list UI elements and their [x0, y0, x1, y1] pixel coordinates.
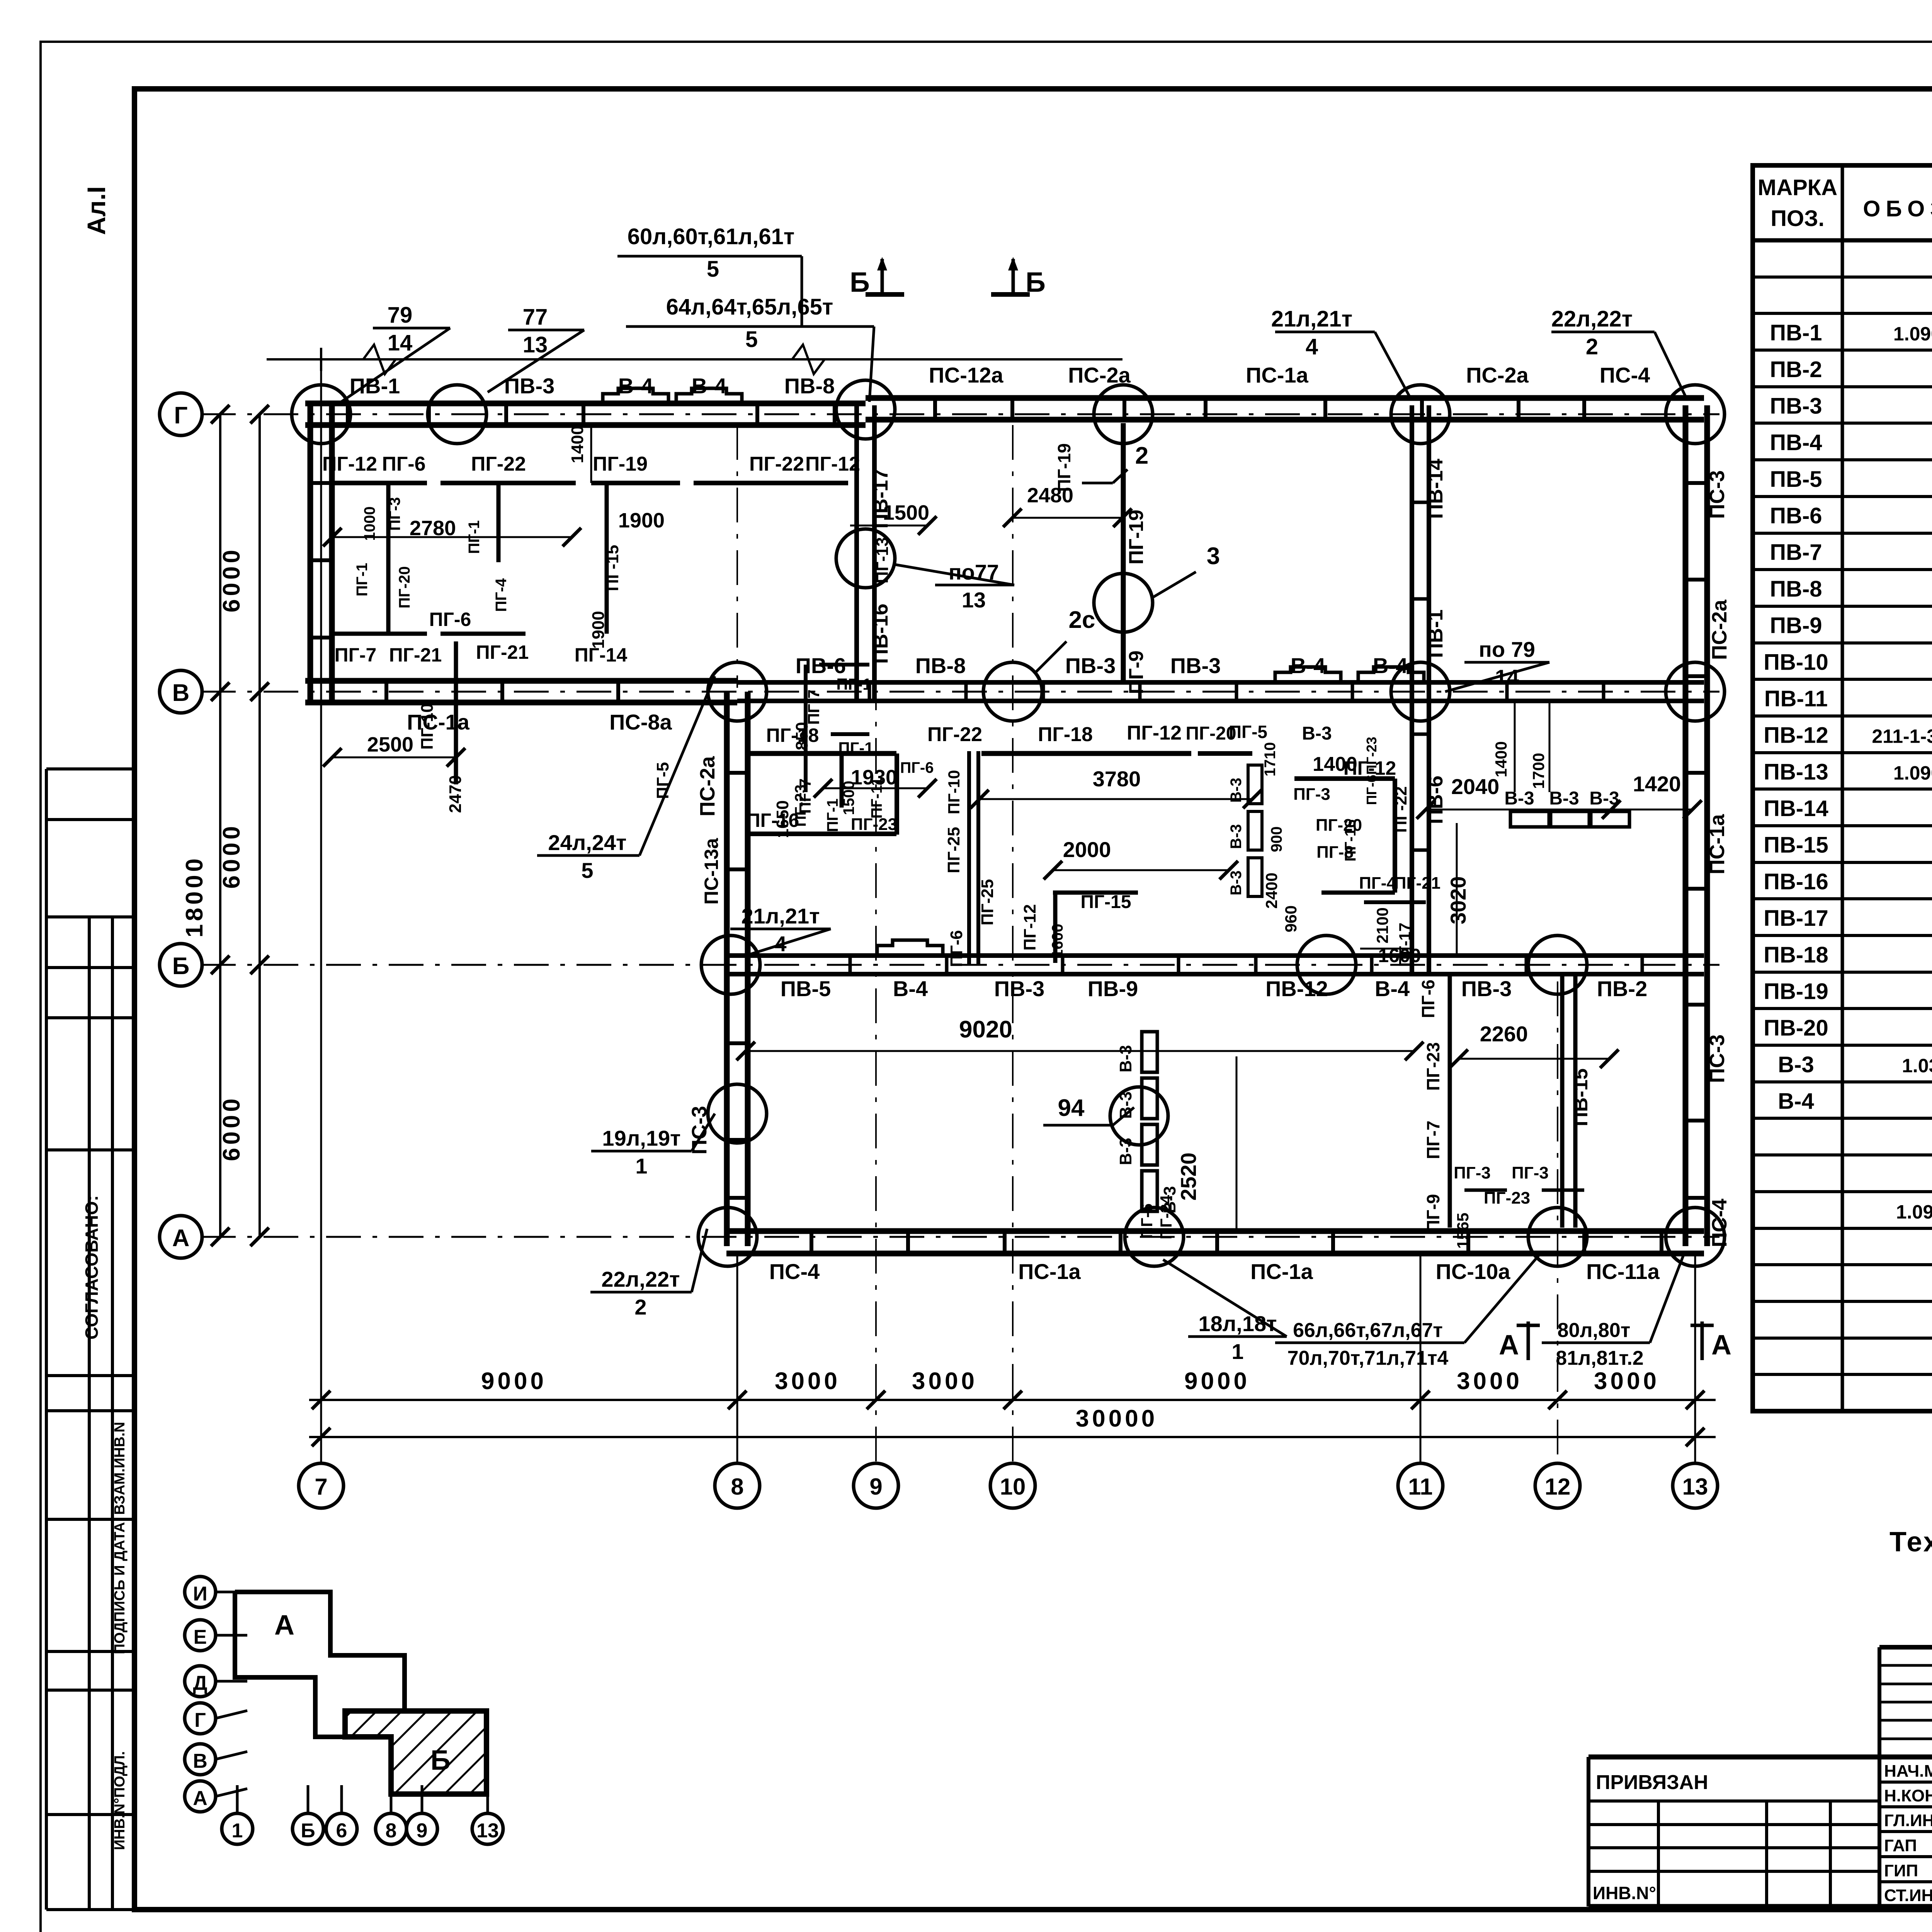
svg-text:8: 8: [731, 1474, 743, 1500]
svg-text:В-4: В-4: [893, 976, 928, 1001]
svg-text:10: 10: [1000, 1474, 1026, 1500]
svg-text:7: 7: [315, 1474, 327, 1500]
svg-text:ПС-1а: ПС-1а: [1250, 1259, 1313, 1284]
svg-text:3000: 3000: [1594, 1368, 1660, 1395]
svg-text:1900: 1900: [589, 611, 608, 649]
svg-text:13: 13: [523, 332, 548, 357]
svg-text:СОГЛАСОВАНО:: СОГЛАСОВАНО:: [82, 1195, 102, 1339]
svg-text:В-4: В-4: [1375, 976, 1410, 1001]
svg-text:5: 5: [707, 257, 719, 282]
svg-text:ПВ-11: ПВ-11: [1764, 686, 1828, 711]
svg-text:5: 5: [581, 858, 593, 883]
svg-text:ПГ-4: ПГ-4: [493, 578, 510, 612]
svg-text:ПС-11а: ПС-11а: [1586, 1259, 1660, 1284]
svg-text:В-4: В-4: [618, 374, 653, 398]
svg-text:64л,64т,65л,65т: 64л,64т,65л,65т: [666, 294, 833, 320]
В-4 panel notch on Б: [877, 940, 943, 956]
svg-text:ПВ-19: ПВ-19: [1764, 979, 1828, 1004]
svg-text:ПС-3: ПС-3: [1706, 1034, 1729, 1083]
svg-text:ГЛ.ИНЖ.М: ГЛ.ИНЖ.М: [1884, 1811, 1932, 1830]
svg-text:ПГ-25: ПГ-25: [978, 879, 997, 925]
svg-text:6000: 6000: [218, 547, 245, 612]
svg-text:2: 2: [1135, 442, 1148, 469]
svg-text:В-3: В-3: [1228, 778, 1245, 803]
svg-text:ПГ-6: ПГ-6: [947, 930, 966, 967]
svg-text:2с: 2с: [1069, 607, 1095, 633]
svg-text:3000: 3000: [775, 1368, 840, 1395]
svg-text:ПГ-21: ПГ-21: [1394, 874, 1440, 893]
svg-text:ПГ-15: ПГ-15: [603, 545, 622, 591]
svg-text:ПГ-19: ПГ-19: [1054, 443, 1074, 492]
svg-text:1400: 1400: [1492, 741, 1510, 777]
key plan outline A: [235, 1592, 405, 1794]
svg-text:ПГ-16: ПГ-16: [747, 810, 799, 831]
svg-text:6000: 6000: [218, 823, 245, 889]
svg-text:ПВ-8: ПВ-8: [1770, 577, 1822, 602]
svg-text:3: 3: [1207, 543, 1220, 570]
svg-text:24л,24т: 24л,24т: [548, 830, 626, 855]
middle band partitions (В..Б): [747, 751, 896, 756]
svg-text:2: 2: [1586, 334, 1598, 359]
axis line Б: [201, 964, 1719, 966]
svg-text:ПГ-11: ПГ-11: [868, 777, 885, 818]
svg-text:ПГ-5: ПГ-5: [653, 762, 672, 799]
interior wall axis 11: [1410, 405, 1414, 973]
svg-text:ПГ-12: ПГ-12: [322, 453, 377, 475]
svg-text:по 79: по 79: [1479, 637, 1535, 662]
svg-text:70л,70т,71л,71т4: 70л,70т,71л,71т4: [1287, 1347, 1449, 1369]
junction circles: [292, 385, 350, 444]
axis line В: [201, 691, 1719, 693]
svg-text:1710: 1710: [1262, 742, 1279, 777]
svg-text:80л,80т: 80л,80т: [1558, 1319, 1631, 1342]
svg-text:6000: 6000: [218, 1095, 245, 1161]
svg-text:9020: 9020: [959, 1016, 1012, 1043]
upper-left block partitions: [334, 481, 427, 485]
svg-text:ПВ-16: ПВ-16: [1764, 869, 1828, 894]
svg-text:А: А: [1711, 1330, 1731, 1361]
svg-text:ПОЗ.: ПОЗ.: [1770, 206, 1824, 231]
svg-text:ПГ-1: ПГ-1: [824, 799, 841, 832]
svg-text:3000: 3000: [1457, 1368, 1522, 1395]
svg-text:ПС-1а: ПС-1а: [1706, 814, 1729, 874]
svg-text:ПС-8а: ПС-8а: [609, 710, 672, 734]
svg-text:ПГ-6: ПГ-6: [429, 609, 471, 630]
svg-text:ВЗАМ.ИНВ.N: ВЗАМ.ИНВ.N: [112, 1422, 128, 1515]
svg-text:Г: Г: [174, 402, 187, 429]
svg-text:ПОДПИСЬ И ДАТА: ПОДПИСЬ И ДАТА: [112, 1522, 128, 1654]
svg-text:ПВ-15: ПВ-15: [1570, 1068, 1592, 1126]
svg-text:И: И: [193, 1583, 207, 1605]
svg-text:ПС-1а: ПС-1а: [1246, 363, 1308, 387]
svg-text:ПГ-6: ПГ-6: [382, 453, 425, 475]
svg-text:ПВ-5: ПВ-5: [1770, 467, 1822, 492]
svg-text:2040: 2040: [1451, 774, 1500, 799]
svg-text:13: 13: [1682, 1474, 1708, 1500]
svg-text:ПГ-7: ПГ-7: [1423, 1121, 1443, 1159]
axis line Г: [201, 413, 1719, 415]
panels table grid: [1753, 165, 1932, 1411]
svg-text:ПГ-4: ПГ-4: [1359, 874, 1396, 893]
svg-text:ПВ-9: ПВ-9: [1088, 976, 1138, 1001]
svg-text:ГАП: ГАП: [1884, 1836, 1917, 1855]
interior wall x2907: [1121, 423, 1126, 683]
svg-text:ПВ-14: ПВ-14: [1764, 796, 1828, 821]
В-4 panel notches on Г: [603, 388, 668, 404]
svg-text:ПВ-13: ПВ-13: [1764, 759, 1828, 784]
svg-text:94: 94: [1058, 1095, 1085, 1121]
svg-text:ПГ-23: ПГ-23: [851, 815, 897, 834]
svg-text:ПРИВЯЗАН: ПРИВЯЗАН: [1596, 1771, 1708, 1794]
svg-text:81л,81т.2: 81л,81т.2: [1556, 1347, 1643, 1369]
svg-text:9: 9: [869, 1474, 882, 1500]
svg-text:А: А: [274, 1610, 294, 1641]
svg-text:ПС-10а: ПС-10а: [1436, 1259, 1511, 1284]
axis number circles: [299, 1463, 344, 1508]
svg-text:2470: 2470: [446, 775, 465, 813]
svg-text:1: 1: [232, 1820, 243, 1842]
svg-text:1600: 1600: [1049, 924, 1066, 958]
svg-text:ПВ-8: ПВ-8: [784, 374, 835, 398]
svg-text:ПВ-8: ПВ-8: [915, 653, 966, 678]
svg-text:9: 9: [417, 1820, 428, 1842]
svg-text:ПГ-22: ПГ-22: [471, 453, 526, 475]
svg-text:ИНВ.N°: ИНВ.N°: [1593, 1883, 1656, 1903]
svg-text:ПВ-3: ПВ-3: [1170, 653, 1221, 678]
svg-text:В-4: В-4: [1778, 1089, 1814, 1114]
svg-text:1500: 1500: [840, 781, 857, 815]
В-4 panel notches on В: [1275, 667, 1341, 682]
svg-text:ПС-13а: ПС-13а: [701, 838, 722, 905]
svg-text:В-3: В-3: [1116, 1045, 1135, 1073]
svg-text:21л,21т: 21л,21т: [1271, 306, 1352, 332]
svg-text:ПВ-14: ПВ-14: [1424, 459, 1447, 519]
svg-text:2400: 2400: [1262, 872, 1281, 908]
svg-text:ПГ-1: ПГ-1: [354, 563, 371, 597]
svg-text:1.090.1-1 ВЫП. 4-1: 1.090.1-1 ВЫП. 4-1: [1893, 323, 1932, 345]
svg-text:ПВ-2: ПВ-2: [1597, 976, 1647, 1001]
svg-text:1.090.1-1 ВЫП. 4-1: 1.090.1-1 ВЫП. 4-1: [1893, 762, 1932, 784]
svg-text:В-3: В-3: [1549, 788, 1579, 809]
left exterior wall axis 7: [308, 405, 313, 701]
svg-text:В: В: [193, 1750, 207, 1772]
svg-text:ГИП: ГИП: [1884, 1861, 1918, 1880]
svg-text:Б: Б: [430, 1745, 451, 1776]
svg-text:ПГ-15: ПГ-15: [1080, 892, 1131, 912]
svg-text:ПВ-3: ПВ-3: [994, 976, 1044, 1001]
svg-text:21л,21т: 21л,21т: [741, 904, 820, 928]
svg-text:ПВ-15: ПВ-15: [1764, 833, 1828, 858]
svg-text:ПГ-3: ПГ-3: [1293, 785, 1330, 804]
svg-text:ПС-4: ПС-4: [769, 1259, 820, 1284]
svg-text:ПГ-18: ПГ-18: [766, 724, 819, 746]
exterior wall along В: [305, 678, 737, 684]
svg-text:ПГ-6: ПГ-6: [900, 759, 934, 776]
svg-text:1700: 1700: [1529, 753, 1548, 789]
svg-text:22л,22т: 22л,22т: [601, 1267, 680, 1291]
svg-text:Технические указания см.лис: Технические указания см.лист40: [1889, 1527, 1932, 1558]
svg-text:1565: 1565: [1454, 1213, 1472, 1248]
svg-text:79: 79: [388, 303, 413, 328]
svg-text:3020: 3020: [1446, 876, 1470, 925]
svg-text:ПВ-3: ПВ-3: [1461, 976, 1512, 1001]
svg-text:13: 13: [962, 588, 986, 612]
svg-text:2100: 2100: [1373, 907, 1391, 943]
svg-text:ПГ-1: ПГ-1: [836, 675, 871, 693]
svg-text:ПГ-19: ПГ-19: [593, 453, 648, 475]
svg-text:ПГ-9: ПГ-9: [1423, 1194, 1443, 1233]
svg-text:77: 77: [523, 304, 548, 330]
svg-text:66л,66т,67л,67т: 66л,66т,67л,67т: [1293, 1319, 1443, 1342]
left dimension lines: [219, 414, 221, 1237]
svg-text:ПГ-23: ПГ-23: [1423, 1042, 1443, 1091]
svg-text:ПВ-4: ПВ-4: [1770, 430, 1822, 455]
svg-text:В-3: В-3: [1504, 788, 1534, 809]
svg-text:В-3: В-3: [1228, 824, 1245, 849]
svg-text:2260: 2260: [1480, 1022, 1528, 1046]
partition x3752 Б..А: [1448, 973, 1452, 1228]
svg-text:1: 1: [635, 1154, 647, 1178]
svg-text:1400: 1400: [568, 425, 587, 463]
svg-text:12: 12: [1545, 1474, 1571, 1500]
svg-text:В-3: В-3: [1302, 723, 1332, 744]
svg-text:ПГ-6: ПГ-6: [1418, 980, 1438, 1018]
svg-text:2520: 2520: [1176, 1153, 1201, 1201]
svg-text:ПВ-3: ПВ-3: [1770, 393, 1822, 418]
svg-text:1420: 1420: [1633, 772, 1681, 796]
svg-text:ПГ-16: ПГ-16: [1342, 819, 1359, 861]
svg-text:ПВ-1: ПВ-1: [1770, 320, 1822, 345]
svg-text:В: В: [172, 680, 190, 706]
svg-text:В-4: В-4: [692, 374, 726, 398]
svg-text:ПВ-17: ПВ-17: [1764, 906, 1828, 931]
svg-text:ПГ-10: ПГ-10: [945, 770, 963, 815]
top dimension line: [267, 358, 1122, 361]
svg-text:Б: Б: [301, 1820, 315, 1842]
svg-text:ПГ-3: ПГ-3: [1512, 1163, 1549, 1182]
svg-text:А: А: [172, 1225, 190, 1252]
svg-text:СТ.ИНЖ.: СТ.ИНЖ.: [1884, 1886, 1932, 1905]
svg-text:ПС-2а: ПС-2а: [1708, 599, 1731, 660]
svg-text:ПГ-12: ПГ-12: [1020, 904, 1039, 951]
svg-text:ПГ-19: ПГ-19: [1125, 510, 1148, 565]
svg-text:6: 6: [336, 1820, 347, 1842]
svg-text:Ал.I: Ал.I: [82, 186, 111, 235]
svg-text:ПВ-2: ПВ-2: [1770, 357, 1822, 382]
svg-text:Д: Д: [193, 1672, 207, 1694]
svg-text:ПГ-21: ПГ-21: [476, 641, 529, 663]
svg-text:900: 900: [1268, 827, 1285, 852]
svg-text:9000: 9000: [1184, 1368, 1250, 1395]
svg-text:ПГ-22: ПГ-22: [749, 453, 804, 475]
svg-text:А: А: [1499, 1330, 1519, 1361]
svg-text:ПВ-9: ПВ-9: [1770, 613, 1822, 638]
svg-text:3000: 3000: [912, 1368, 978, 1395]
svg-text:ПГ-9: ПГ-9: [1125, 650, 1148, 694]
left stamp column: [45, 769, 48, 1910]
svg-text:ПВ-3: ПВ-3: [1065, 653, 1116, 678]
svg-text:2000: 2000: [1063, 837, 1111, 862]
svg-text:11: 11: [1408, 1474, 1432, 1500]
svg-text:ПГ-12: ПГ-12: [1127, 722, 1182, 744]
svg-text:ПВ-12: ПВ-12: [1764, 723, 1828, 748]
svg-text:ПГ-18: ПГ-18: [1038, 723, 1093, 746]
svg-text:3780: 3780: [1093, 767, 1141, 791]
svg-text:ПВ-18: ПВ-18: [1764, 942, 1828, 968]
svg-text:211-1-307.85-АСИ.07.00: 211-1-307.85-АСИ.07.00: [1872, 726, 1932, 747]
svg-text:60л,60т,61л,61т: 60л,60т,61л,61т: [628, 224, 795, 249]
svg-text:ПГ-20: ПГ-20: [396, 566, 413, 608]
exterior wall along А: [726, 1228, 1704, 1234]
bottom dimension lines: [309, 1399, 1716, 1401]
В-3 strip near axis 12: [1510, 811, 1549, 827]
svg-text:ОБОЗНАЧЕНИЕ: ОБОЗНАЧЕНИЕ: [1863, 196, 1932, 221]
svg-text:ПГ-24: ПГ-24: [1157, 1195, 1175, 1239]
svg-text:ПС-2а: ПС-2а: [1466, 363, 1529, 387]
svg-text:4: 4: [1306, 334, 1318, 359]
svg-text:ПГ-12: ПГ-12: [1344, 757, 1396, 779]
svg-text:ПГ-12: ПГ-12: [805, 453, 860, 475]
svg-text:ПГ-21: ПГ-21: [389, 644, 442, 666]
exterior wall along Г: [305, 401, 866, 406]
interior wall x2240: [854, 405, 859, 701]
svg-text:ПВ-16: ПВ-16: [869, 604, 892, 664]
В-3 vertical column: [1142, 1032, 1157, 1072]
svg-text:ПВ-20: ПВ-20: [1764, 1015, 1828, 1041]
svg-text:22л,22т: 22л,22т: [1551, 306, 1633, 332]
svg-text:14: 14: [388, 330, 413, 355]
svg-text:Н.КОНТР: Н.КОНТР: [1884, 1786, 1932, 1805]
svg-text:ПВ-10: ПВ-10: [1764, 650, 1828, 675]
svg-text:ПС-3: ПС-3: [1706, 470, 1729, 519]
svg-text:ПС-2а: ПС-2а: [696, 756, 719, 816]
svg-text:Г: Г: [194, 1709, 206, 1731]
svg-text:ПГ-3: ПГ-3: [386, 497, 403, 531]
svg-text:5: 5: [745, 327, 758, 352]
svg-text:1900: 1900: [618, 509, 665, 532]
svg-text:НАЧ.МАСТ: НАЧ.МАСТ: [1884, 1762, 1932, 1781]
key plan hatched block Б: [345, 1711, 486, 1794]
svg-text:ПВ-6: ПВ-6: [1770, 503, 1822, 529]
svg-text:13: 13: [476, 1820, 499, 1842]
svg-text:ПГ-22: ПГ-22: [1391, 786, 1410, 833]
svg-text:ПГ-7: ПГ-7: [335, 644, 377, 666]
svg-text:Е: Е: [194, 1626, 207, 1648]
svg-text:30000: 30000: [1076, 1405, 1158, 1432]
svg-text:ПГ-5: ПГ-5: [1229, 722, 1267, 742]
svg-text:19л,19т: 19л,19т: [602, 1126, 680, 1150]
svg-text:МАРКА: МАРКА: [1758, 175, 1837, 200]
svg-text:ПВ-7: ПВ-7: [1770, 540, 1822, 565]
svg-text:9000: 9000: [481, 1368, 547, 1395]
svg-text:Б: Б: [172, 953, 190, 980]
interior wall ПВ-15 x4060: [1560, 973, 1565, 1228]
svg-text:8: 8: [386, 1820, 397, 1842]
svg-text:ПВ-1: ПВ-1: [350, 374, 400, 398]
svg-text:ПВ-1: ПВ-1: [1424, 609, 1447, 658]
axis letter circles: [160, 393, 202, 435]
svg-text:18000: 18000: [181, 855, 208, 937]
svg-text:ПВ-12: ПВ-12: [1265, 976, 1328, 1001]
svg-text:В-3: В-3: [1778, 1052, 1814, 1077]
svg-text:ПС-1а: ПС-1а: [1018, 1259, 1081, 1284]
svg-text:ПС-4: ПС-4: [1600, 363, 1650, 387]
svg-text:2500: 2500: [367, 733, 413, 756]
svg-text:1000: 1000: [361, 507, 378, 541]
axis line А: [201, 1236, 1719, 1238]
svg-text:960: 960: [1282, 905, 1300, 932]
svg-text:ИНВ.N°ПОДЛ.: ИНВ.N°ПОДЛ.: [112, 1751, 128, 1850]
svg-text:ПГ-22: ПГ-22: [927, 723, 982, 746]
svg-text:ПС-1а: ПС-1а: [407, 710, 469, 734]
svg-text:А: А: [193, 1787, 207, 1810]
svg-text:1.090 1-1 ВЫП.7-1: 1.090 1-1 ВЫП.7-1: [1896, 1201, 1932, 1223]
svg-text:ПГ-25: ПГ-25: [944, 827, 963, 873]
left wall of lower block axis 8: [724, 692, 730, 1246]
right exterior wall: [1683, 405, 1689, 1246]
svg-text:1.034.1-1. ВЫП.1: 1.034.1-1. ВЫП.1: [1902, 1055, 1932, 1077]
svg-text:ПВ-6: ПВ-6: [1424, 776, 1447, 824]
svg-text:ПС-12а: ПС-12а: [929, 363, 1004, 387]
svg-text:ПВ-5: ПВ-5: [781, 976, 831, 1001]
wall along Б: [726, 953, 1704, 958]
svg-text:ПГ-3: ПГ-3: [1454, 1163, 1491, 1182]
svg-text:ПГ-10: ПГ-10: [418, 703, 437, 750]
svg-text:1500: 1500: [883, 501, 929, 524]
svg-text:2: 2: [634, 1295, 646, 1319]
svg-text:В-3: В-3: [1228, 871, 1245, 895]
vertical axis lines: [320, 361, 322, 1463]
svg-text:1: 1: [1231, 1339, 1243, 1364]
